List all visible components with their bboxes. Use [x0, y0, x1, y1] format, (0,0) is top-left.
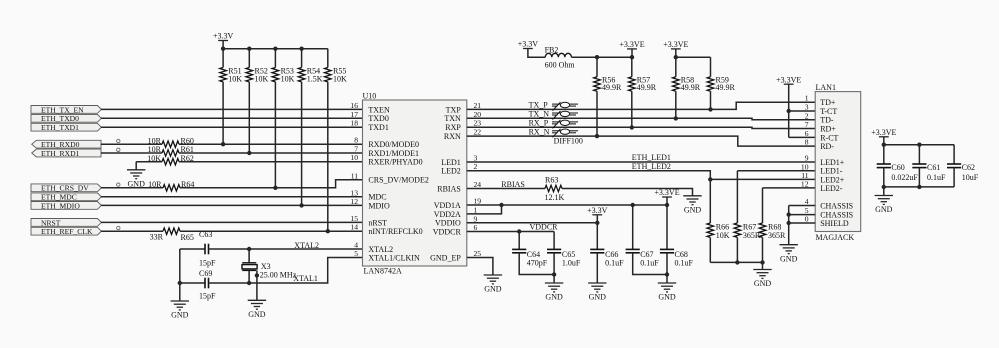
crystal X3 [242, 249, 257, 283]
wire ETH_RXD1 to R61 [101, 152, 162, 154]
resistor R55 [325, 68, 332, 82]
svg-text:19: 19 [474, 197, 482, 206]
twisted-pair marker RX_N [552, 129, 578, 138]
svg-text:12: 12 [801, 179, 809, 188]
resistor R65 [163, 228, 180, 234]
svg-text:TD-: TD- [820, 116, 834, 125]
wire TX_N to TD- [467, 118, 815, 120]
flag ETH_MDIO [31, 202, 101, 210]
junction R67 bottom [735, 260, 739, 264]
svg-text:TX_P: TX_P [529, 101, 549, 110]
svg-text:T-CT: T-CT [820, 107, 837, 116]
svg-text:+3.3VE: +3.3VE [663, 40, 688, 49]
wire ETH_RXD0 to R60 [101, 143, 162, 145]
svg-text:TXEN: TXEN [368, 105, 390, 114]
wire ETH_MDIO to pin 12 [101, 204, 363, 206]
svg-text:1.5K: 1.5K [307, 75, 323, 84]
wire C61 bottom lead [918, 168, 920, 187]
svg-text:TXD1: TXD1 [368, 123, 388, 132]
wire ETH_LED1 (LED1 to LED1+) [467, 161, 815, 163]
wire C67 top lead [632, 205, 634, 249]
svg-text:365R: 365R [768, 231, 786, 240]
svg-text:17: 17 [350, 110, 358, 119]
svg-text:+3.3VE: +3.3VE [619, 40, 644, 49]
svg-text:ETH_TXD0: ETH_TXD0 [41, 114, 79, 123]
wire FB2 to +3.3VE node [571, 56, 632, 58]
flag ETH_MDC [31, 193, 101, 201]
svg-text:LAN1: LAN1 [816, 83, 836, 92]
junction C60 top [882, 143, 886, 147]
svg-text:C69: C69 [199, 269, 212, 278]
wire VDD1A rail [467, 204, 667, 206]
svg-text:+3.3VE: +3.3VE [654, 188, 679, 197]
wire R65 to pin 14 [180, 230, 363, 232]
svg-text:LED2-: LED2- [820, 184, 843, 193]
svg-text:470pF: 470pF [527, 259, 548, 268]
flag ETH_TXD1 [31, 123, 101, 131]
svg-text:+3.3VE: +3.3VE [871, 128, 896, 137]
no-connect marker on ETH_CRS_DV [117, 183, 120, 186]
svg-text:GND: GND [171, 311, 189, 320]
svg-text:R-CT: R-CT [820, 133, 838, 142]
wire C69 left lead [180, 282, 205, 284]
svg-text:6: 6 [474, 223, 478, 232]
svg-text:R65: R65 [181, 233, 194, 242]
svg-text:25: 25 [474, 249, 482, 258]
op-amp U10 LAN8742A body [363, 100, 467, 266]
wire LED2- down to R68 [762, 188, 764, 223]
wire LED1- down to R67 [736, 171, 738, 223]
svg-text:3: 3 [805, 103, 809, 112]
svg-text:ETH_RXD1: ETH_RXD1 [41, 149, 80, 158]
resistor R60 [162, 141, 179, 147]
wire R57 top stem [631, 57, 633, 77]
wire R56 bottom stem [596, 91, 598, 136]
svg-text:ETH_REF_CLK: ETH_REF_CLK [41, 227, 93, 236]
junction bus/R51 [221, 47, 225, 51]
ground (R62) [127, 170, 145, 179]
junction R51/ETH_RXD0 [221, 142, 225, 146]
wire chassis vertical [788, 206, 790, 245]
wire ETH_TXD1 to pin 18 [101, 126, 363, 128]
wire R60 to pin 8 [179, 143, 363, 145]
wire R63 to ground [562, 189, 693, 196]
svg-text:TD+: TD+ [820, 98, 836, 107]
wire LED2+ to jack pin 11 [710, 178, 815, 180]
junction R59/TX_P [708, 107, 712, 111]
junction R53/ETH_CRS_DV [273, 186, 277, 190]
svg-text:24: 24 [474, 180, 482, 189]
capacitor C61 [912, 164, 926, 168]
resistor R57 [629, 77, 636, 91]
power +3.3V (FB2 input) [523, 48, 533, 50]
svg-text:9: 9 [474, 214, 478, 223]
svg-text:ETH_RXD0: ETH_RXD0 [41, 140, 80, 149]
ground (filter caps) [875, 196, 893, 205]
wire GND to R62 [136, 161, 162, 163]
ground (X3) [248, 300, 266, 309]
svg-text:9: 9 [805, 154, 809, 163]
svg-text:GND: GND [754, 279, 772, 288]
svg-text:10: 10 [350, 153, 358, 162]
svg-text:VDDCR: VDDCR [433, 227, 462, 236]
svg-text:10K: 10K [716, 231, 730, 240]
ground (LED resistors) [753, 270, 771, 279]
svg-text:33R: 33R [150, 233, 164, 242]
wire R67 bottom [736, 237, 738, 262]
wire ETH_REF_CLK to R65 [101, 230, 163, 232]
svg-text:nRST: nRST [368, 218, 387, 227]
wire R61 to pin 7 [179, 152, 363, 154]
svg-text:15pF: 15pF [199, 258, 216, 267]
svg-text:RXD1/MODE1: RXD1/MODE1 [368, 149, 419, 158]
wire R58 bottom stem [675, 91, 677, 118]
svg-text:GND: GND [589, 293, 607, 302]
svg-text:TXD0: TXD0 [368, 114, 388, 123]
svg-text:1.0uF: 1.0uF [562, 259, 581, 268]
junction R57 top / +3.3VE [630, 55, 634, 59]
svg-text:5: 5 [354, 249, 358, 258]
svg-text:XTAL1: XTAL1 [293, 274, 318, 283]
junction R52/ETH_RXD1 [247, 151, 251, 155]
svg-text:10K: 10K [147, 154, 161, 163]
svg-text:11: 11 [351, 171, 359, 180]
svg-text:0.1uF: 0.1uF [675, 259, 694, 268]
junction T-CT [787, 109, 791, 113]
wire C61 top lead [918, 145, 920, 164]
capacitor C67 [626, 249, 640, 252]
svg-text:10uF: 10uF [962, 173, 979, 182]
svg-text:TXP: TXP [446, 105, 462, 114]
svg-text:49.9R: 49.9R [602, 83, 622, 92]
svg-text:+3.3VE: +3.3VE [776, 75, 801, 84]
wire C67 bottom to C68 bottom [633, 253, 667, 275]
wire NRST to pin 15 [101, 221, 363, 223]
wire R55 down [327, 82, 329, 231]
flag ETH_REF_CLK [31, 227, 101, 235]
junction C69/ground leg [178, 281, 182, 285]
svg-text:49.9R: 49.9R [637, 83, 657, 92]
resistor R56 [594, 77, 601, 91]
junction C67/VDD rail [631, 203, 635, 207]
svg-text:ETH_TX_EN: ETH_TX_EN [41, 105, 84, 114]
wire SHIELD pin 0 [789, 222, 816, 224]
ground (C66) [588, 283, 606, 292]
wire RX_P to RD+ [467, 127, 815, 128]
wire R64 to pin 11 [180, 180, 363, 188]
svg-text:10K: 10K [228, 75, 242, 84]
svg-text:10R: 10R [148, 145, 162, 154]
wire ground stem (LED resistors) [762, 262, 764, 269]
svg-text:0.1uF: 0.1uF [605, 259, 624, 268]
wire C64 top lead [518, 232, 520, 250]
wire C65 top lead [553, 232, 555, 250]
svg-text:1: 1 [474, 205, 478, 214]
svg-text:16: 16 [350, 101, 358, 110]
svg-text:ETH_LED2: ETH_LED2 [632, 162, 671, 171]
ground (C68) [658, 283, 676, 292]
svg-text:0.1uF: 0.1uF [927, 173, 946, 182]
junction shield pin 0 [787, 221, 791, 225]
svg-text:GND: GND [248, 310, 266, 319]
inductor FB2 [545, 53, 571, 57]
wire C60 bottom lead [883, 168, 885, 187]
junction C60 bottom [882, 185, 886, 189]
wire +3.3VE stem (filter) [883, 137, 885, 145]
svg-text:GND: GND [484, 285, 502, 294]
wire +3.3VE stem (R57) [631, 49, 633, 57]
wire ETH_CRS_DV to R64 [101, 187, 163, 189]
junction X3/XTAL2 [247, 247, 251, 251]
svg-text:10R: 10R [148, 136, 162, 145]
wire filter ground stem [883, 187, 885, 196]
wire bus to R54 [301, 49, 303, 68]
svg-text:0.1uF: 0.1uF [640, 259, 659, 268]
svg-text:C62: C62 [962, 163, 975, 172]
wire TX_P to TD+ [467, 102, 815, 109]
junction C64/VDDCR [517, 229, 521, 233]
svg-text:15: 15 [350, 214, 358, 223]
svg-text:TX_N: TX_N [529, 110, 550, 119]
wire R51 down [222, 82, 224, 144]
svg-text:7: 7 [354, 145, 358, 154]
svg-text:0.022uF: 0.022uF [891, 173, 918, 182]
capacitor C66 [590, 249, 604, 252]
svg-text:C63: C63 [199, 230, 212, 239]
capacitor C69 [205, 278, 209, 289]
svg-text:25.00 MHz: 25.00 MHz [260, 270, 297, 279]
svg-text:22: 22 [474, 128, 482, 137]
wire LED2- to jack pin 12 [763, 187, 816, 189]
junction C67/C68 bottoms [665, 272, 669, 276]
svg-text:FB2: FB2 [545, 45, 559, 54]
resistor R58 [673, 77, 680, 91]
connector LAN1 MAGJACK body [815, 92, 861, 232]
power +3.3VE (R58/R59) [671, 48, 681, 50]
svg-text:2: 2 [474, 162, 478, 171]
junction C68/VDD rail [665, 203, 669, 207]
wire +3.3VE to center taps [788, 84, 790, 137]
wire R62 to pin 10 [179, 161, 363, 163]
wire X3 case to ground [256, 270, 258, 300]
wire LED1- to jack pin 10 [737, 170, 815, 172]
wire +3.3VE stem (R58) [675, 49, 677, 57]
wire CHASSIS pin 4 [789, 205, 816, 207]
svg-text:21: 21 [474, 101, 482, 110]
svg-text:6: 6 [805, 129, 809, 138]
twisted-pair marker TX_P [552, 102, 578, 111]
svg-text:VDD1A: VDD1A [434, 201, 461, 210]
capacitor C62 [947, 164, 961, 168]
wire C63 left lead [180, 248, 205, 250]
ground (GND_EP) [484, 275, 502, 284]
svg-text:C60: C60 [891, 163, 904, 172]
resistor R53 [272, 68, 279, 82]
wire R62 ground stem [135, 162, 137, 170]
junction R56/RX_N [595, 134, 599, 138]
wire R58/R59 bus [676, 56, 711, 58]
wire RBIAS to R63 [467, 188, 545, 190]
svg-text:R63: R63 [545, 175, 558, 184]
svg-text:U10: U10 [363, 91, 377, 100]
wire C63/C69 left vertical to ground [179, 249, 181, 301]
junction R68 bottom [760, 260, 764, 264]
junction R58/TX_N [674, 116, 678, 120]
svg-text:RBIAS: RBIAS [501, 180, 525, 189]
svg-text:NRST: NRST [41, 218, 61, 227]
capacitor C68 [660, 249, 674, 252]
wire R56 top stem [596, 57, 598, 77]
resistor R61 [162, 150, 179, 156]
wire bus to R52 [248, 49, 250, 68]
resistor R64 [163, 185, 180, 191]
wire R66/R67/R68 ground bus [710, 261, 762, 263]
wire ETH_TXD0 to pin 17 [101, 117, 363, 119]
ground (R63) [683, 196, 701, 205]
svg-text:49.9R: 49.9R [681, 83, 701, 92]
twisted-pair marker TX_N [552, 111, 578, 120]
svg-text:12.1K: 12.1K [545, 193, 565, 202]
wire R58 top stem [675, 57, 677, 77]
svg-text:MDIO: MDIO [368, 201, 390, 210]
svg-text:GND_EP: GND_EP [430, 253, 461, 262]
wire R54 down [301, 82, 303, 205]
wire VDDCR [467, 231, 554, 233]
svg-text:3: 3 [474, 154, 478, 163]
wire to R-CT [789, 136, 816, 138]
wire VDD2A jog [467, 205, 502, 214]
svg-text:SHIELD: SHIELD [820, 219, 849, 228]
svg-text:RBIAS: RBIAS [437, 184, 461, 193]
wire C62 top lead [953, 145, 955, 164]
svg-text:LED1+: LED1+ [820, 158, 845, 167]
resistor R59 [707, 77, 714, 91]
wire R52 down [248, 82, 250, 153]
svg-text:nINT/REFCLK0: nINT/REFCLK0 [368, 227, 422, 236]
wire CHASSIS pin 5 [789, 214, 816, 216]
svg-text:GND: GND [780, 254, 798, 263]
svg-text:1: 1 [805, 94, 809, 103]
capacitor C60 [877, 164, 891, 168]
junction C61 top [917, 143, 921, 147]
wire C65 bottom lead [553, 253, 555, 283]
power +3.3VE (filter caps) [879, 136, 889, 138]
svg-text:49.9R: 49.9R [716, 83, 736, 92]
junction bus/R54 [299, 47, 303, 51]
junction VDDIO/C66 [595, 221, 599, 225]
svg-text:GND: GND [545, 293, 563, 302]
flag ETH_TXD0 [31, 114, 101, 122]
wire R57 bottom stem [631, 91, 633, 127]
junction bus/R52 [247, 47, 251, 51]
wire bus to R53 [274, 49, 276, 68]
capacitor C63 [205, 244, 209, 255]
power +3.3VE (R57) [627, 48, 637, 50]
wire C68 bottom lead [666, 253, 668, 283]
junction bus/R53 [273, 47, 277, 51]
svg-text:LAN8742A: LAN8742A [364, 267, 402, 276]
wire R59 bottom stem [710, 91, 712, 109]
no-connect marker on ETH_RXD0 [117, 139, 120, 142]
wire pull-up bus [223, 48, 328, 50]
wire to T-CT [789, 110, 816, 112]
junction R56 top [595, 55, 599, 59]
twisted-pair marker RX_P [552, 120, 578, 128]
svg-text:VDDCR: VDDCR [530, 222, 559, 231]
resistor R51 [220, 68, 227, 82]
wire C64 bottom to C65 bottom [519, 253, 554, 275]
svg-text:14: 14 [350, 223, 358, 232]
wire +3.3VE stem (VDD rail) [666, 197, 668, 205]
wire bus to R51 [222, 49, 224, 68]
junction R55/ETH_REF_CLK [326, 229, 330, 233]
svg-text:10K: 10K [255, 75, 269, 84]
svg-text:10R: 10R [148, 180, 162, 189]
svg-text:RD-: RD- [820, 142, 834, 151]
svg-text:+3.3V: +3.3V [213, 32, 234, 41]
resistor R63 [545, 185, 562, 191]
svg-text:8: 8 [354, 136, 358, 145]
wire R59 top stem [710, 57, 712, 77]
power +3.3V (VDDIO) [592, 214, 602, 216]
resistor R62 [162, 159, 179, 165]
svg-text:XTAL2: XTAL2 [294, 241, 319, 250]
svg-text:GND: GND [684, 205, 702, 214]
power +3.3VE (center taps) [784, 83, 794, 85]
wire R68 bottom [762, 237, 764, 262]
svg-text:C61: C61 [927, 163, 940, 172]
svg-text:10K: 10K [333, 75, 347, 84]
svg-text:RX_P: RX_P [529, 118, 549, 127]
svg-text:GND: GND [875, 205, 893, 214]
wire ETH_MDC to pin 13 [101, 196, 363, 198]
svg-text:ETH_CRS_DV: ETH_CRS_DV [41, 184, 89, 193]
wire XTAL1 net to pin 5 [209, 258, 363, 284]
junction ETH_LED2/LED2+ [708, 177, 712, 181]
junction R58 top [674, 55, 678, 59]
junction C61 bottom [917, 185, 921, 189]
wire RX_N to RD- [467, 136, 815, 146]
svg-text:ETH_TXD1: ETH_TXD1 [41, 123, 79, 132]
wire filter top bus [884, 144, 954, 146]
resistor R66 [707, 223, 714, 237]
svg-text:7: 7 [805, 120, 809, 129]
wire +3.3V stem (VDDIO) [596, 215, 598, 223]
power +3.3VE (VDD rail) [662, 196, 672, 198]
flag ETH_TX_EN [31, 106, 101, 114]
wire R53 down [274, 82, 276, 188]
capacitor C65 [547, 249, 561, 252]
svg-text:RXER/PHYAD0: RXER/PHYAD0 [368, 158, 422, 167]
svg-text:VDDIO: VDDIO [435, 219, 461, 228]
svg-text:8: 8 [805, 138, 809, 147]
svg-text:20: 20 [474, 110, 482, 119]
svg-text:23: 23 [474, 119, 482, 128]
svg-text:LED1: LED1 [441, 158, 461, 167]
svg-text:DIFF100: DIFF100 [554, 136, 583, 145]
wire +3.3V to FB2 [528, 49, 545, 58]
flag ETH_CRS_DV [31, 184, 101, 192]
wire C68 top lead [666, 205, 668, 249]
svg-text:ETH_MDIO: ETH_MDIO [41, 201, 80, 210]
flag ETH_RXD0 [32, 140, 101, 148]
svg-text:VDD2A: VDD2A [434, 210, 461, 219]
svg-text:TXN: TXN [444, 114, 461, 123]
no-connect marker on ETH_REF_CLK [117, 226, 120, 229]
svg-text:LED2: LED2 [441, 167, 461, 176]
ground (C65) [545, 283, 563, 292]
flag ETH_RXD1 [32, 149, 101, 157]
